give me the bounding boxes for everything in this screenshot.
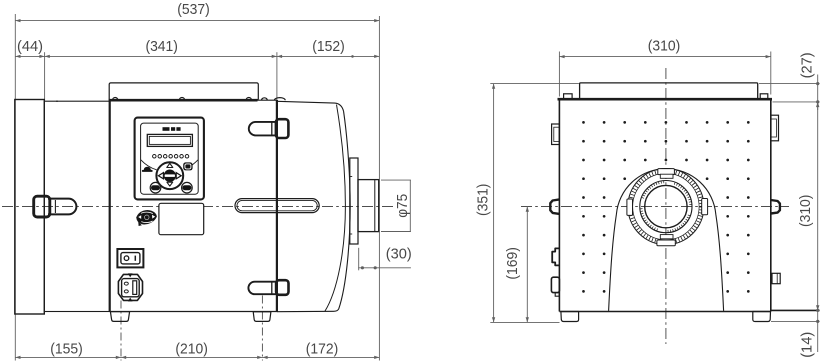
- clamp tab north: [658, 169, 675, 175]
- svg-text:(44): (44): [17, 38, 43, 55]
- dial down arrow: [167, 182, 173, 186]
- cover latch handle: [48, 199, 76, 215]
- blower bell housing outline: [609, 169, 724, 311]
- svg-text:(537): (537): [177, 1, 210, 18]
- navigation dial: [156, 162, 183, 189]
- latch keeper right edge: [771, 200, 780, 214]
- rear handle: [580, 83, 758, 99]
- control panel outer frame: [135, 118, 204, 200]
- latch keeper left edge: [550, 199, 559, 214]
- perforation dots grid: [582, 121, 585, 124]
- bottom latch bracket on container: [276, 280, 288, 295]
- centerline right view vertical: [665, 68, 667, 344]
- row of indicator LEDs: [153, 155, 157, 159]
- bumps near divider top: [262, 98, 268, 100]
- clamp tab east: [702, 199, 708, 215]
- foot centre dashed line x=262.4: [261, 296, 263, 361]
- container outer right curved edge: [277, 112, 350, 312]
- dimension (310) top rear: [558, 52, 560, 97]
- extension line x=44.6 (cover depth): [44, 52, 46, 101]
- dimension (14) right: [771, 309, 820, 311]
- front cover (44 deep): [15, 100, 45, 315]
- top handle left view: [109, 83, 258, 100]
- inlet bore circle: [645, 185, 687, 227]
- clamp tab south: [657, 240, 675, 246]
- svg-text:(152): (152): [312, 38, 345, 55]
- dial centre button: [164, 170, 175, 181]
- main body top edge thick: [109, 99, 258, 102]
- handle recess oval slot: [235, 199, 319, 213]
- access box below panel: [159, 203, 204, 234]
- container inner seam curve: [325, 105, 346, 312]
- svg-text:(27): (27): [799, 52, 816, 78]
- dimension (169) left: [526, 207, 528, 323]
- inlet clamp ring outer: [628, 169, 704, 245]
- main body front edge: [109, 100, 111, 311]
- bottom latch handle: [248, 282, 277, 295]
- LCD display: [147, 134, 192, 146]
- svg-text:(210): (210): [175, 341, 208, 358]
- dimension (27) right: [759, 83, 820, 85]
- head/container divider: [276, 100, 278, 312]
- clamp tab west: [627, 199, 633, 215]
- centerline left view horizontal axis: [2, 206, 394, 208]
- top latch handle: [249, 122, 278, 135]
- dimension (351) left: [490, 83, 579, 85]
- power rocker switch: [117, 249, 143, 267]
- container top edge: [277, 101, 344, 111]
- centerline right view horizontal: [521, 206, 789, 208]
- foot centre dashed line x=121: [120, 301, 122, 361]
- panel bezel curves: [141, 160, 157, 170]
- outlet port cylinder phi75: [358, 180, 379, 232]
- side clip top-left: [552, 124, 560, 145]
- dial left arrow: [158, 173, 163, 179]
- power/run button: [183, 162, 192, 170]
- svg-text:(310): (310): [648, 38, 681, 55]
- lid screws on top edge: [113, 97, 118, 100]
- svg-text:(310): (310): [797, 195, 814, 228]
- inlet ring hatch arcs: [666, 215, 689, 231]
- extension line x=15.3 (left overall): [14, 14, 16, 361]
- dial up arrow: [167, 163, 173, 167]
- switch profile left edge: [552, 248, 559, 265]
- svg-text:(172): (172): [306, 341, 339, 358]
- maker eye logo: [137, 211, 157, 225]
- inner tab north: [660, 174, 673, 178]
- dimension line (155)(210)(172) bottom: [15, 356, 379, 358]
- rear body panel: [558, 98, 773, 101]
- svg-text:(14): (14): [798, 332, 815, 358]
- rear left foot: [561, 312, 579, 322]
- svg-text:(30): (30): [386, 246, 412, 263]
- outlet flange plate: [350, 158, 358, 244]
- inner tab south: [660, 235, 673, 239]
- filter icon left of dial: [144, 167, 151, 170]
- svg-text:(341): (341): [145, 38, 178, 55]
- panel brand label: [163, 127, 170, 131]
- inlet ring middle circle: [640, 181, 692, 233]
- small screw dot on mid section top: [56, 100, 58, 102]
- phi75 extension lines: [381, 179, 411, 181]
- control panel inner frame: [141, 123, 199, 194]
- dimension (310) right: [817, 102, 819, 311]
- corner screw left: [564, 94, 573, 99]
- svg-text:φ75: φ75: [394, 194, 411, 218]
- clamp ring knurled band: [630, 171, 701, 242]
- IEC power inlet: [118, 274, 142, 300]
- main body bottom edge: [110, 311, 277, 313]
- extension line x=276.9 (head/container split): [276, 52, 278, 100]
- dimension (30) port depth: [358, 248, 360, 270]
- clip bottom-right edge: [772, 273, 780, 283]
- top latch bracket on container: [276, 119, 289, 138]
- cover latch bracket: [34, 196, 50, 217]
- extension line x=379.4 (right overall / port tip): [378, 16, 380, 361]
- dimension (537) top overall: [15, 20, 379, 22]
- bottom-left panel button: [150, 182, 161, 193]
- dial right arrow: [176, 173, 181, 179]
- svg-text:(169): (169): [504, 247, 521, 280]
- left foot: [110, 312, 129, 322]
- bottom-right panel button: [182, 182, 193, 193]
- right foot: [253, 312, 271, 322]
- mid housing section: [44, 101, 109, 311]
- corner screw right: [760, 94, 768, 99]
- side clip top-right: [771, 115, 779, 141]
- svg-text:(155): (155): [50, 341, 83, 358]
- port end seam: [374, 180, 376, 232]
- dimension line (44)(341)(152): [15, 55, 379, 57]
- rear right foot: [753, 312, 771, 322]
- IEC inlet profile left edge: [551, 277, 559, 292]
- svg-text:(351): (351): [475, 184, 492, 217]
